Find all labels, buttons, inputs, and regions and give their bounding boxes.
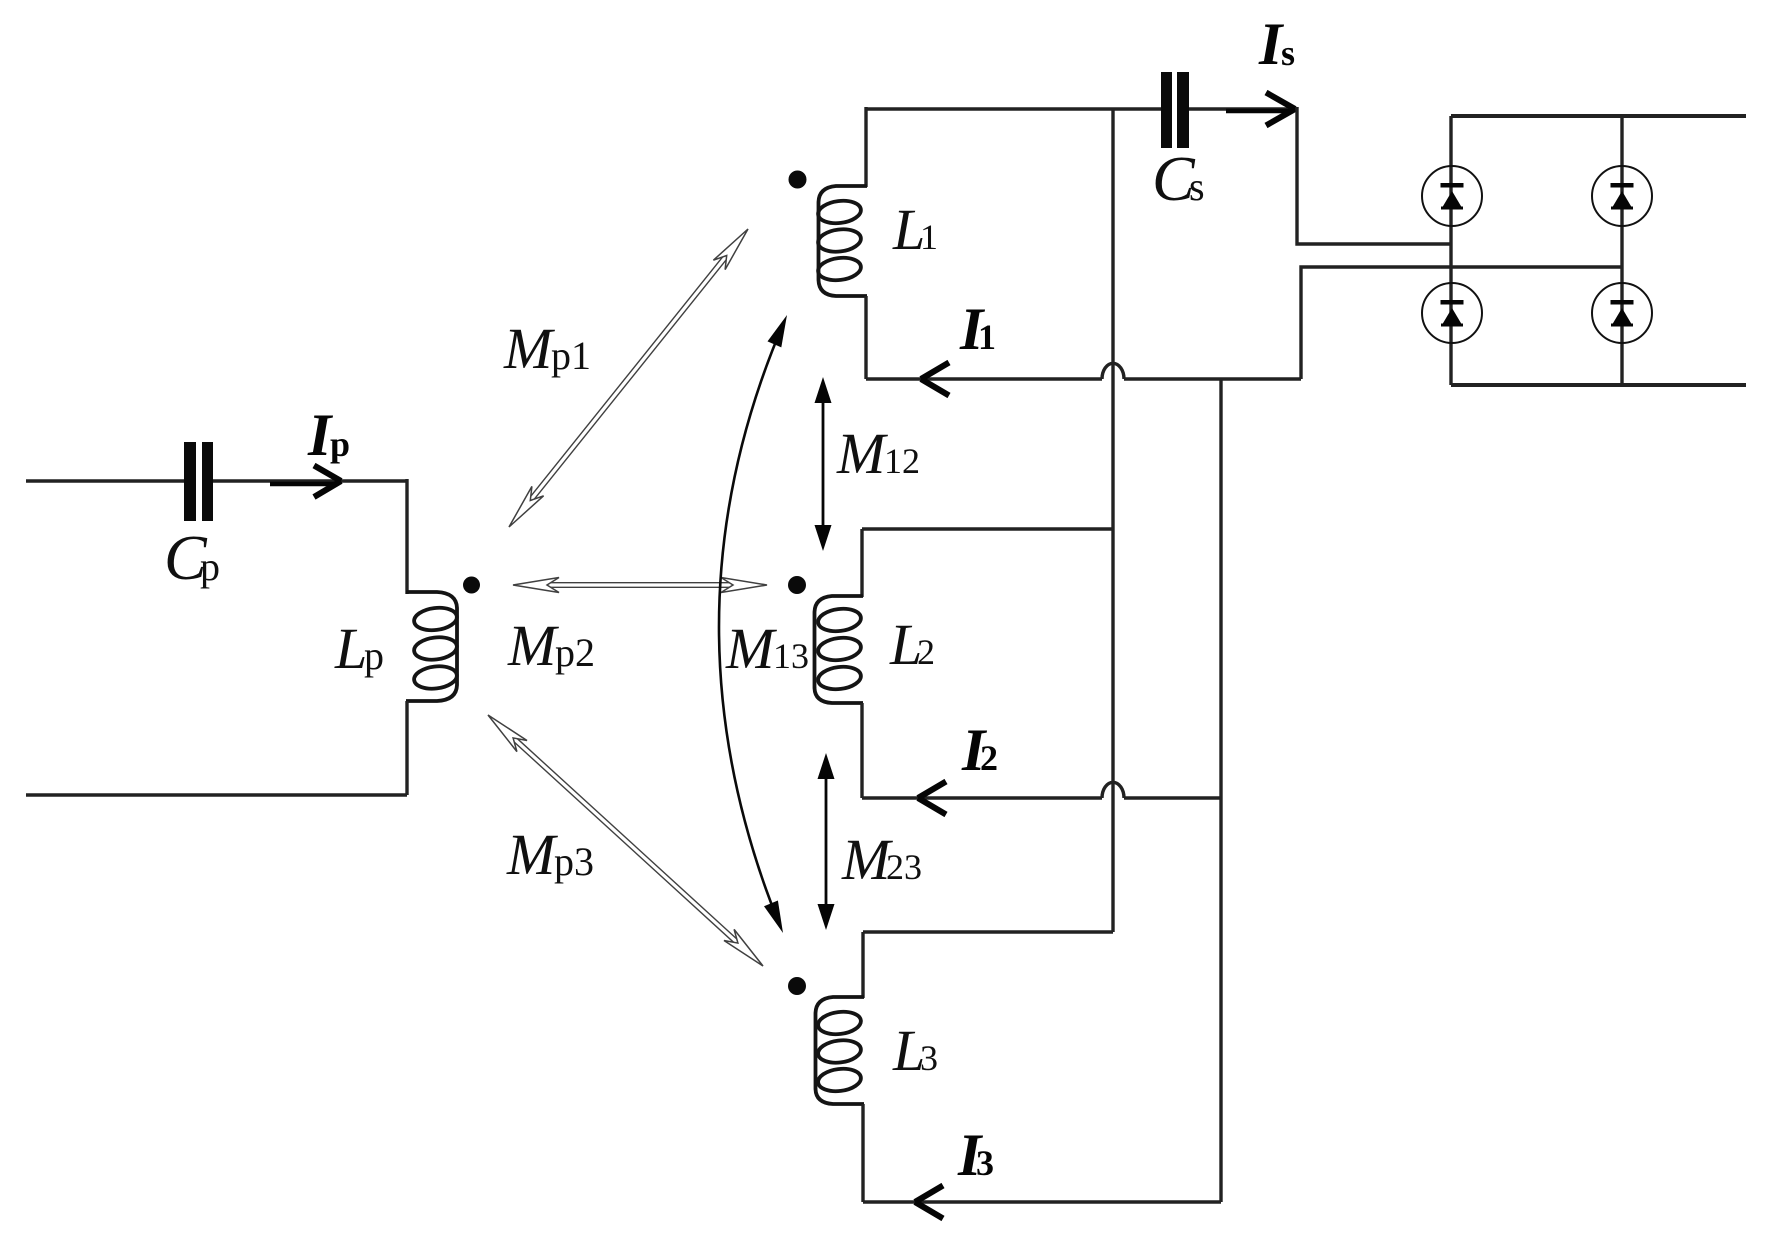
mutual arrow Mp1 (509, 229, 748, 527)
current arrow I1 (921, 363, 949, 396)
wire L2 bottom left of hop (862, 796, 1102, 799)
wire L3 bottom (863, 1200, 1221, 1203)
wire L2 top (862, 527, 1113, 530)
wire L3 left vertical upper (861, 932, 864, 998)
svg-text:1: 1 (978, 317, 996, 357)
diode D1 top-left (1422, 166, 1482, 226)
wire node A vertical (1111, 109, 1114, 932)
svg-text:p: p (200, 544, 220, 589)
svg-text:2: 2 (980, 738, 998, 778)
diode D3 top-right (1592, 166, 1652, 226)
wire L3 left vertical lower (861, 1104, 864, 1202)
svg-text:3: 3 (920, 1038, 938, 1078)
wire bridge left leg (1449, 116, 1452, 385)
svg-text:M: M (503, 316, 555, 381)
wire primary top right of Cp (213, 479, 407, 482)
wire L2 bottom right of hop (1124, 796, 1221, 799)
svg-text:s: s (1189, 164, 1205, 209)
svg-text:p1: p1 (551, 333, 591, 378)
capacitor Cp (184, 442, 213, 521)
wire node B vertical (1219, 379, 1222, 1202)
wire hop over node A on L2 bottom (1102, 782, 1124, 798)
current arrow Ip (270, 466, 341, 498)
svg-text:3: 3 (976, 1143, 994, 1183)
svg-text:M: M (836, 421, 888, 486)
mutual arrow Mp2 (513, 578, 767, 593)
svg-text:M: M (507, 613, 559, 678)
wire L1 left vertical upper (864, 107, 867, 187)
svg-text:p: p (364, 633, 384, 678)
dot L2 phase (788, 576, 806, 594)
svg-text:M: M (506, 822, 558, 887)
wire primary right vertical upper (405, 479, 408, 594)
wire L2 left vertical lower (860, 703, 863, 798)
inductor Lp (406, 592, 458, 701)
svg-text:1: 1 (920, 217, 938, 257)
wire corner up to bridge ac2 (1301, 267, 1622, 379)
wire hop over node A on L1 bottom (1102, 363, 1124, 379)
wire primary right vertical lower (405, 701, 408, 795)
wire L2 left vertical upper (860, 529, 863, 597)
svg-text:2: 2 (917, 632, 935, 672)
inductor L2 (815, 596, 864, 703)
svg-text:23: 23 (886, 847, 922, 887)
diode D2 bottom-left (1422, 283, 1482, 343)
wire primary bottom (26, 793, 407, 796)
svg-text:p: p (330, 424, 350, 464)
wire primary top left (26, 479, 184, 482)
capacitor Cs (1161, 72, 1189, 148)
wire bridge right leg (1620, 116, 1623, 385)
wire L1 bottom right of hop (1124, 377, 1301, 380)
mutual arrow M13 curved (719, 315, 787, 933)
dot Lp phase (463, 577, 480, 594)
wire L1 top (left of Cs) (866, 107, 1161, 110)
current arrow I3 (915, 1186, 943, 1219)
wire L1 left vertical lower (864, 296, 867, 379)
mutual arrow M23 (818, 753, 835, 930)
wire bridge top rail (1451, 114, 1746, 118)
svg-text:p2: p2 (555, 630, 595, 675)
dot L1 phase (789, 171, 807, 189)
inductor L3 (816, 997, 865, 1104)
current arrow I2 (918, 782, 946, 815)
inductor L1 (817, 186, 867, 296)
diode D4 bottom-right (1592, 283, 1652, 343)
svg-text:12: 12 (884, 441, 920, 481)
svg-text:M: M (725, 616, 777, 681)
mutual arrow Mp3 (488, 715, 763, 966)
wire L1 top (right of Cs) (1189, 107, 1297, 110)
svg-text:13: 13 (773, 636, 809, 676)
wire L3 top (863, 930, 1113, 933)
svg-text:L: L (334, 616, 367, 681)
svg-text:s: s (1281, 33, 1295, 73)
wire corner to bridge ac1 (1297, 107, 1451, 244)
dot L3 phase (788, 977, 806, 995)
svg-text:p3: p3 (554, 839, 594, 884)
current arrow Is (1226, 93, 1295, 126)
wire L1 bottom left of hop (866, 377, 1102, 380)
mutual arrow M12 (815, 377, 832, 551)
wire bridge bottom rail (1451, 383, 1746, 387)
